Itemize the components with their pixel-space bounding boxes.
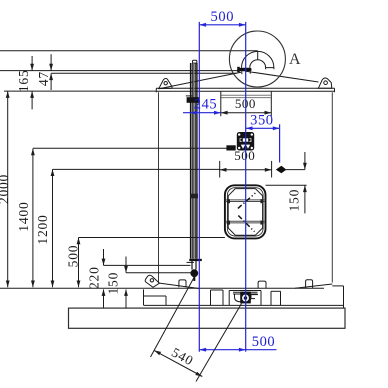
svg-text:500: 500 [66, 245, 81, 268]
svg-text:A: A [289, 51, 301, 68]
svg-text:150: 150 [105, 272, 120, 295]
svg-text:1400: 1400 [16, 201, 31, 231]
svg-text:245: 245 [194, 96, 218, 112]
svg-text:500: 500 [211, 9, 235, 25]
svg-text:150: 150 [286, 189, 301, 212]
svg-text:165: 165 [16, 69, 31, 92]
svg-text:500: 500 [252, 334, 276, 350]
svg-text:220: 220 [86, 266, 101, 289]
svg-text:1200: 1200 [35, 214, 50, 244]
svg-text:500: 500 [234, 148, 255, 163]
svg-text:47: 47 [36, 71, 51, 86]
svg-text:350: 350 [250, 113, 274, 129]
svg-text:2000: 2000 [0, 174, 11, 204]
